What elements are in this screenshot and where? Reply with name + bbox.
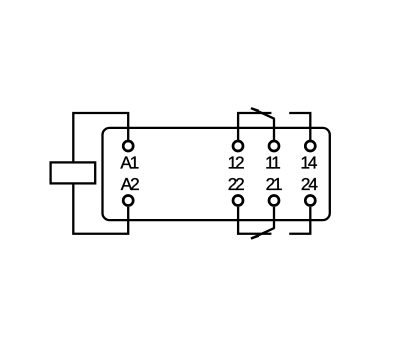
svg-text:A1: A1 <box>120 152 138 172</box>
terminal 14 <box>305 141 315 151</box>
svg-text:21: 21 <box>266 174 282 194</box>
terminal 22 <box>233 196 243 206</box>
svg-text:24: 24 <box>301 174 318 194</box>
wire 11 riser <box>273 118 275 140</box>
svg-text:11: 11 <box>265 152 280 172</box>
wire coil loop (A1 top rail, left rail, A2 bottom rail) <box>73 113 128 234</box>
svg-text:14: 14 <box>300 152 317 172</box>
wire 22 dropper <box>238 207 271 234</box>
wire 24 dropper <box>289 207 310 234</box>
svg-text:A2: A2 <box>121 174 139 194</box>
blade tip tick (top) <box>251 108 259 111</box>
movable contact blade (bottom changeover) <box>252 228 275 238</box>
relay body outline <box>103 128 330 220</box>
coil <box>51 162 96 183</box>
wire 14 riser <box>289 113 310 140</box>
terminal A2 <box>123 196 133 206</box>
svg-text:12: 12 <box>228 152 244 172</box>
wire 12 riser <box>238 113 271 140</box>
terminal 21 <box>269 196 279 206</box>
terminal A1 <box>123 141 133 151</box>
movable contact blade (top changeover) <box>252 109 275 119</box>
wire 21 dropper <box>273 207 275 229</box>
terminal 24 <box>305 196 315 206</box>
svg-text:22: 22 <box>228 174 244 194</box>
terminal 11 <box>269 141 279 151</box>
blade tip tick (bottom) <box>251 236 259 239</box>
terminal 12 <box>233 141 243 151</box>
